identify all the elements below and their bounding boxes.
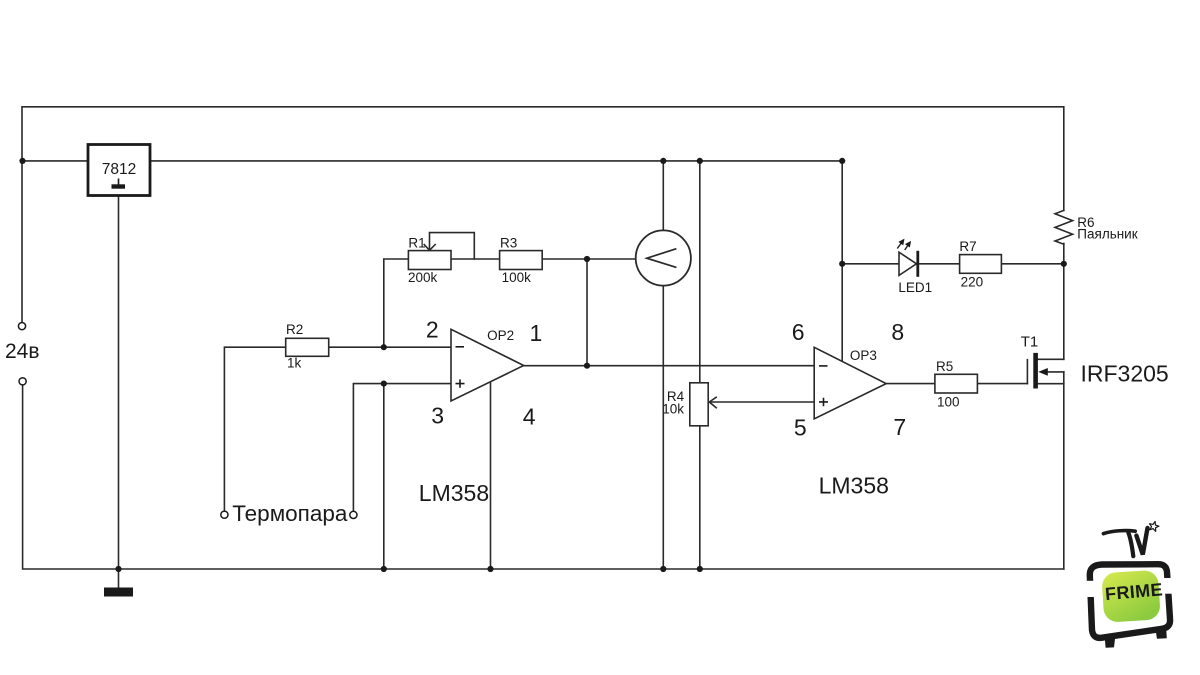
svg-text:LED1: LED1 bbox=[898, 280, 932, 295]
svg-text:2: 2 bbox=[426, 316, 439, 342]
svg-text:R5: R5 bbox=[936, 359, 953, 374]
svg-text:OP2: OP2 bbox=[487, 328, 514, 343]
svg-text:LM358: LM358 bbox=[419, 480, 489, 506]
svg-text:4: 4 bbox=[523, 404, 536, 430]
svg-text:R7: R7 bbox=[959, 239, 976, 254]
svg-text:1k: 1k bbox=[287, 356, 302, 371]
svg-text:10k: 10k bbox=[662, 402, 684, 417]
svg-text:Паяльник: Паяльник bbox=[1077, 227, 1137, 242]
svg-text:24в: 24в bbox=[5, 340, 40, 363]
svg-text:OP3: OP3 bbox=[850, 348, 877, 363]
svg-text:R3: R3 bbox=[500, 236, 517, 251]
svg-text:1: 1 bbox=[530, 320, 543, 346]
svg-text:LM358: LM358 bbox=[819, 473, 889, 499]
svg-text:100: 100 bbox=[937, 395, 960, 410]
svg-text:5: 5 bbox=[794, 415, 807, 441]
svg-text:220: 220 bbox=[961, 274, 984, 289]
svg-text:R1: R1 bbox=[408, 236, 425, 251]
svg-text:7812: 7812 bbox=[102, 161, 136, 178]
svg-text:T1: T1 bbox=[1021, 334, 1039, 351]
svg-text:200k: 200k bbox=[408, 270, 438, 285]
svg-text:6: 6 bbox=[792, 319, 805, 345]
svg-text:7: 7 bbox=[893, 414, 906, 440]
svg-text:100k: 100k bbox=[502, 270, 532, 285]
svg-text:IRF3205: IRF3205 bbox=[1081, 360, 1169, 386]
svg-text:3: 3 bbox=[431, 403, 444, 429]
svg-text:8: 8 bbox=[891, 319, 904, 345]
svg-text:Термопара: Термопара bbox=[232, 501, 348, 526]
svg-text:R2: R2 bbox=[286, 322, 303, 337]
